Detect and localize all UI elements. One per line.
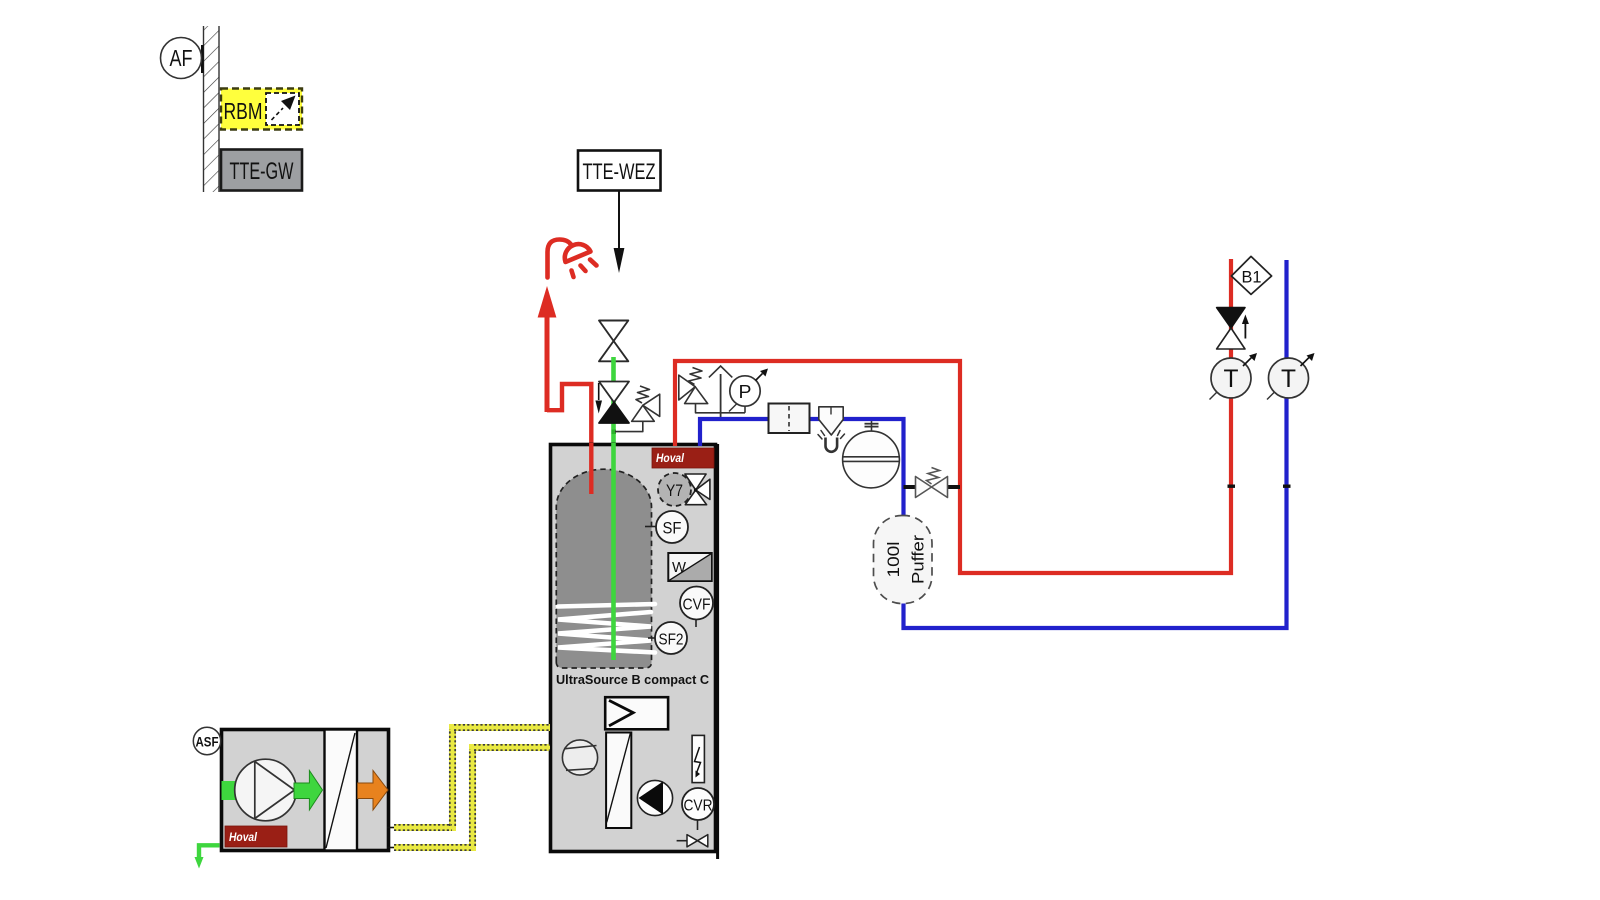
DHW outlet red arrow — [538, 286, 557, 412]
svg-text:AF: AF — [170, 45, 193, 71]
svg-text:P: P — [739, 382, 752, 402]
svg-text:B1: B1 — [1242, 268, 1262, 287]
filter panel (ventilation) — [325, 730, 358, 851]
check valve (black) with down arrow — [595, 382, 629, 424]
heating coil in tank — [558, 604, 655, 653]
wire: green exhaust outlet arrow — [195, 845, 220, 868]
bypass valve (between blue and red) — [904, 468, 961, 498]
vent (open outlet) — [709, 366, 732, 417]
sensor SF2 — [648, 622, 687, 654]
thermometer T (flow) — [1210, 353, 1258, 400]
gateway TTE-GW (gray box) — [221, 150, 302, 191]
svg-text:100l: 100l — [884, 542, 903, 578]
svg-text:W: W — [672, 559, 687, 576]
green supply arrow — [294, 771, 323, 811]
cable: control cable 1 (yellow) — [387, 725, 550, 830]
wire: red pipe into tank (over tank) — [589, 443, 593, 494]
orange exhaust arrow — [358, 771, 389, 811]
sensor CVR — [682, 788, 714, 830]
RBM inner arrow box — [266, 93, 299, 125]
svg-text:CVF: CVF — [683, 597, 711, 614]
controller TTE-WEZ (label box) — [578, 151, 661, 191]
svg-text:TTE-WEZ: TTE-WEZ — [583, 159, 656, 184]
safety valve SV1 (on green line) — [615, 386, 660, 432]
valve (shut-off, above unit on green line) — [599, 321, 628, 362]
expansion vessel — [843, 421, 900, 488]
node B1 (diamond) — [1231, 256, 1271, 294]
wire: red DHW pipe from tank to arrow — [547, 384, 591, 494]
wire: green sensor line — [611, 357, 616, 660]
control valve (on red riser) — [1217, 308, 1249, 349]
wall (hatched) — [203, 26, 219, 192]
compressor circle — [562, 740, 597, 775]
fan box (chevron) — [605, 697, 668, 729]
svg-text:SF2: SF2 — [659, 632, 684, 649]
magnet symbol — [818, 431, 845, 452]
pump (circle, black triangle) — [637, 780, 672, 815]
safety valve SV2 (on red pipe) — [679, 368, 745, 413]
Hoval logo (unit) — [652, 448, 714, 468]
svg-text:Hoval: Hoval — [229, 832, 258, 844]
shower icon — [548, 240, 597, 278]
Hoval logo (ventilation unit) — [225, 826, 287, 847]
svg-text:Hoval: Hoval — [656, 453, 685, 465]
svg-text:Puffer: Puffer — [909, 535, 928, 584]
sensor ASF — [193, 727, 220, 754]
electric heater — [692, 735, 704, 782]
svg-text:T: T — [1224, 365, 1239, 393]
wire: heat pump return blue pipe — [700, 260, 1287, 628]
svg-text:Y7: Y7 — [666, 481, 683, 500]
pressure gauge P — [729, 369, 768, 413]
dirt/magnetite separator — [819, 407, 843, 435]
buffer tank 100l Puffer — [874, 516, 933, 604]
svg-text:TTE-GW: TTE-GW — [230, 158, 294, 185]
actuator Y7 — [658, 473, 691, 506]
ventilation unit cabinet — [222, 730, 389, 851]
heat pump unit UltraSource B compact C (cabinet) — [551, 444, 718, 859]
storage tank (dashed dome) — [556, 469, 651, 668]
wire: heating flow red pipe (unit to radiators) — [675, 259, 1231, 573]
sensor CVF — [680, 587, 713, 628]
node tick on blue riser — [1283, 485, 1291, 488]
thermometer T (return) — [1267, 353, 1315, 400]
mixing valve (3-way, at Y7) — [685, 474, 710, 505]
heat exchanger W — [668, 553, 711, 581]
RBM module (yellow dashed box) — [221, 89, 302, 130]
sensor AF — [161, 38, 204, 79]
drain valve (unit bottom) — [677, 835, 708, 847]
svg-text:ASF: ASF — [196, 734, 219, 750]
svg-text:T: T — [1281, 365, 1296, 393]
filter (in blue line) — [769, 404, 810, 434]
cable: control cable 2 (yellow) — [387, 745, 550, 850]
svg-text:CVR: CVR — [684, 798, 713, 815]
svg-text:RBM: RBM — [224, 98, 263, 124]
supply air green duct stub — [222, 781, 236, 800]
svg-text:UltraSource B compact C: UltraSource B compact C — [556, 673, 709, 687]
wire: green line over tank — [611, 443, 616, 660]
TTE-WEZ pointer arrow — [614, 191, 625, 273]
sensor SF — [645, 511, 688, 543]
node tick on red riser — [1228, 485, 1236, 488]
filter/evaporator panel — [606, 733, 631, 829]
ventilation fan (circle + triangle) — [235, 759, 297, 821]
svg-text:SF: SF — [663, 519, 682, 538]
node: green junction — [612, 430, 617, 435]
